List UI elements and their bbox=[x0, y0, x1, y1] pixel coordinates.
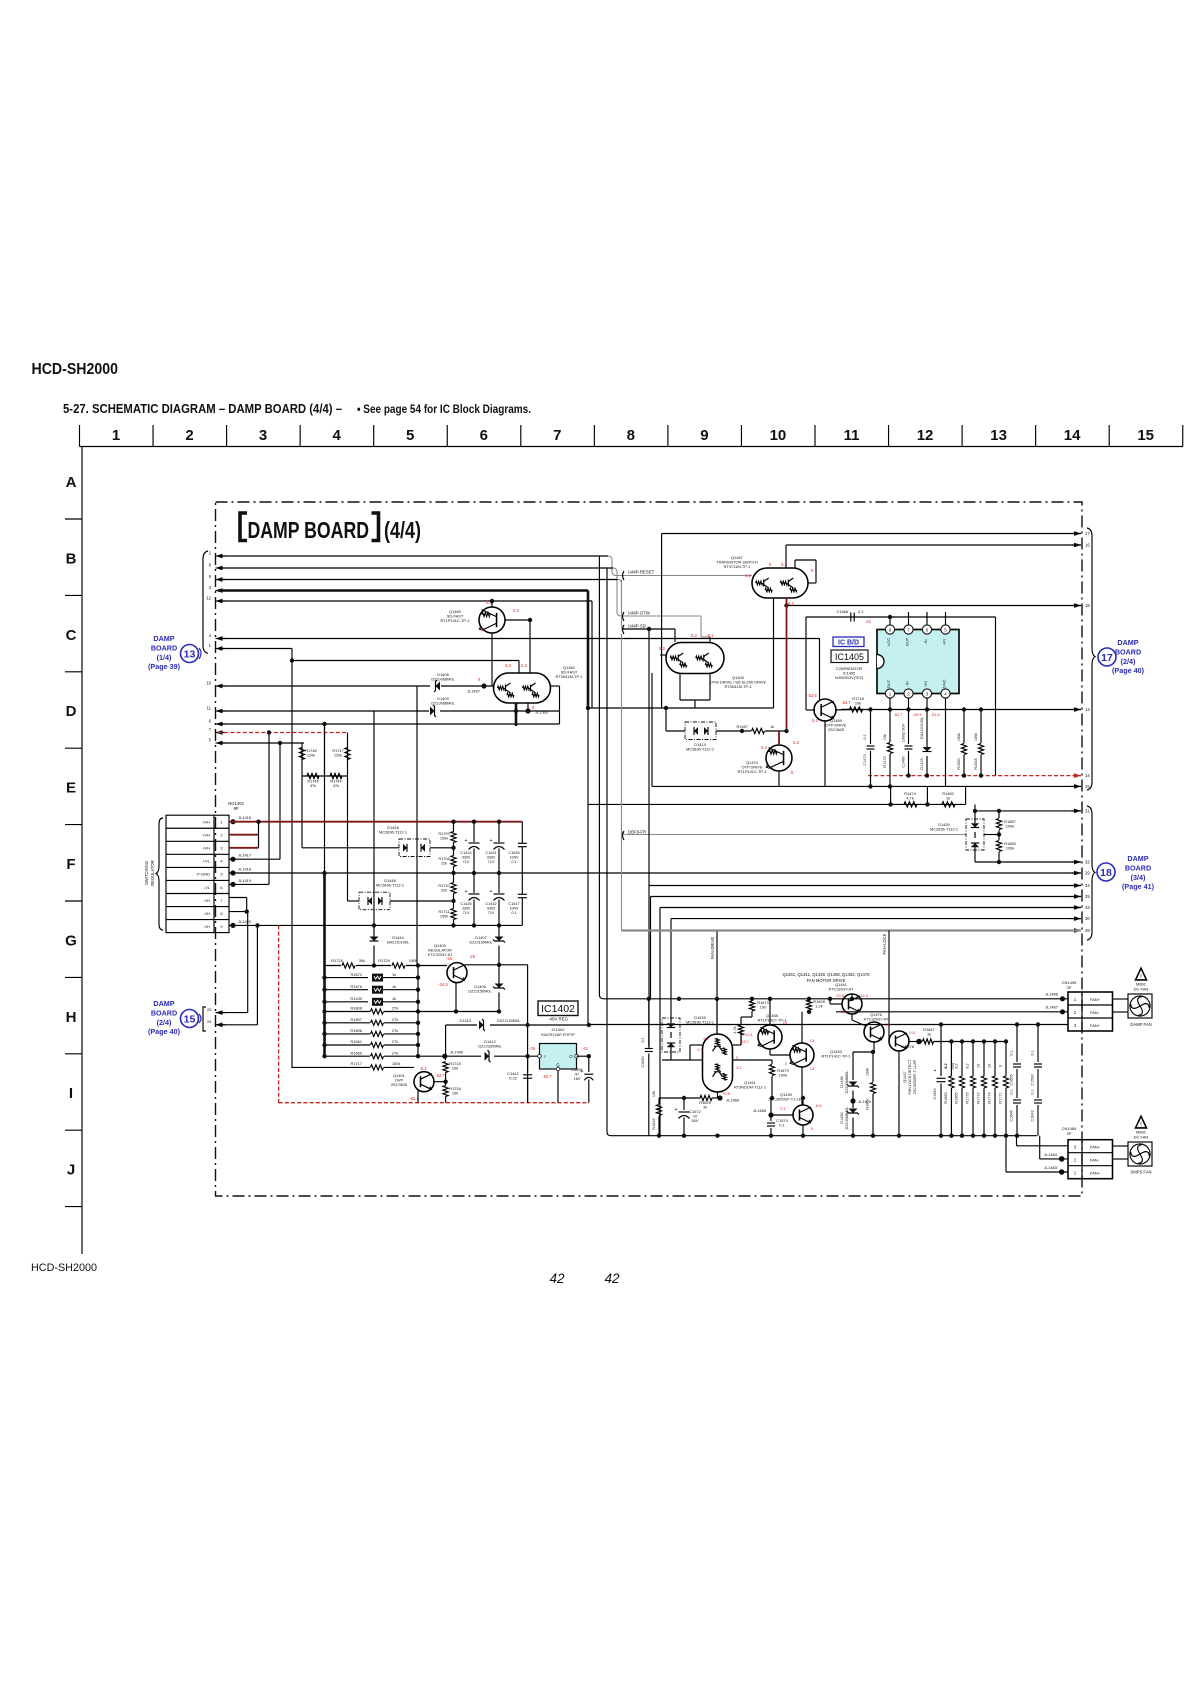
svg-text:HCD-SH2000: HCD-SH2000 bbox=[32, 361, 119, 378]
svg-text:R1457: R1457 bbox=[737, 724, 748, 729]
IC1402 KIA7912AF-RTF/P block bbox=[538, 1027, 579, 1071]
wire pin1 jog down bbox=[291, 649, 293, 661]
svg-text:-52.7: -52.7 bbox=[841, 700, 851, 705]
svg-text:Q1447: Q1447 bbox=[903, 1071, 907, 1082]
resistor R1672 1k bbox=[322, 972, 420, 982]
svg-text:R1745: R1745 bbox=[307, 780, 318, 784]
svg-text:5.2: 5.2 bbox=[812, 718, 818, 723]
svg-text:10k: 10k bbox=[452, 1091, 458, 1096]
wire to pin31 arrow bbox=[975, 810, 1081, 812]
svg-text:13.5: 13.5 bbox=[836, 993, 845, 998]
wire to pin16 arrow bbox=[786, 544, 1081, 546]
connector 15 pin 24 arrow bbox=[207, 1019, 225, 1027]
vertical x652 from Q1405 area bbox=[651, 673, 653, 786]
svg-text:-41: -41 bbox=[582, 1046, 589, 1051]
svg-text:12: 12 bbox=[917, 427, 934, 444]
svg-text:C1606: C1606 bbox=[1010, 1110, 1014, 1121]
svg-text:B: B bbox=[66, 550, 77, 567]
capacitor C1594 4.7 50V bbox=[933, 1022, 955, 1135]
svg-text:OUT: OUT bbox=[886, 679, 891, 688]
svg-text:150k: 150k bbox=[392, 1061, 400, 1066]
connector 15 bracket bbox=[203, 1007, 206, 1031]
svg-text:3.4: 3.4 bbox=[505, 663, 511, 668]
svg-text:D1413: D1413 bbox=[460, 1018, 471, 1023]
vertical x649 fan area bbox=[648, 629, 650, 1048]
svg-text:7: 7 bbox=[553, 427, 561, 444]
transistor Q1401 OVP 2SC3625 bbox=[391, 1072, 434, 1092]
junction JL1470 bbox=[850, 1098, 871, 1104]
resistor R1716 10k bbox=[443, 1082, 461, 1103]
junction JL1416 bbox=[230, 815, 251, 824]
svg-text:13: 13 bbox=[810, 1038, 815, 1043]
svg-text:R1548: R1548 bbox=[974, 758, 978, 769]
svg-text:FAN+: FAN+ bbox=[1090, 1023, 1101, 1028]
connector NO1402 9P body bbox=[166, 815, 229, 932]
resistor R1676 1k bbox=[322, 984, 420, 994]
junction JL1484 bbox=[1044, 1152, 1065, 1162]
svg-text:3.1: 3.1 bbox=[736, 1065, 742, 1070]
svg-text:OUT: OUT bbox=[905, 637, 910, 646]
connector 17 pin 17 arrow bbox=[1071, 531, 1090, 536]
svg-text:42: 42 bbox=[604, 1271, 620, 1286]
resistor R1772 10 bbox=[977, 1039, 987, 1135]
wire y708 row bbox=[588, 707, 695, 709]
svg-text:2SC3052EF-T1-LEF: 2SC3052EF-T1-LEF bbox=[913, 1059, 917, 1094]
connector 13 pin 5 arrow bbox=[209, 738, 226, 746]
svg-text:FAN-DRIVE: FAN-DRIVE bbox=[710, 937, 715, 960]
svg-text:(4/4): (4/4) bbox=[384, 517, 421, 543]
svg-text:RT3NDDM-T111-1: RT3NDDM-T111-1 bbox=[734, 1085, 766, 1090]
resistor R1480 1k bbox=[942, 791, 955, 807]
wire JL1468 vertical bbox=[770, 1098, 772, 1115]
svg-text:RT3N11M-TP-1: RT3N11M-TP-1 bbox=[724, 684, 751, 689]
wire pin12 vertical bbox=[591, 601, 593, 708]
svg-text:13.1: 13.1 bbox=[745, 1032, 754, 1037]
wire pin2 to AMP-RESET bbox=[218, 556, 752, 576]
connector 18 pin 29 arrow bbox=[1071, 871, 1090, 876]
connector 17 pin 15 arrow bbox=[1071, 784, 1090, 789]
svg-text:-IN: -IN bbox=[905, 681, 910, 686]
resistor R1709 150k bbox=[438, 832, 456, 843]
svg-text:MC2836-T112-1: MC2836-T112-1 bbox=[686, 1020, 714, 1025]
svg-text:+: + bbox=[464, 838, 467, 844]
wire IC1405 pin1 down bbox=[889, 698, 891, 709]
wire Q1447 emitter down bbox=[898, 1051, 900, 1136]
ladder right bus x418 bbox=[417, 966, 419, 1057]
vertical x975 D1430 bottom bbox=[974, 850, 976, 862]
wire Q1476 emitter to D1436 bbox=[853, 1051, 874, 1053]
wire JL1487 row bbox=[836, 1011, 1068, 1013]
wire D1413 row bbox=[446, 1024, 477, 1026]
wire IC1405 pin5 up bbox=[945, 612, 947, 625]
wire +VL pin4 bbox=[229, 858, 280, 860]
svg-text:5.2: 5.2 bbox=[793, 740, 799, 745]
connector CN1484 3P bbox=[1062, 1126, 1113, 1179]
connector 13 pin 9 arrow bbox=[209, 574, 226, 582]
resistor R1745 47k bbox=[307, 773, 319, 788]
capacitor C1605 0.1 bbox=[1010, 1025, 1022, 1099]
svg-text:3300: 3300 bbox=[462, 855, 470, 859]
svg-text:FAN-: FAN- bbox=[1090, 1158, 1100, 1163]
svg-text:5.2: 5.2 bbox=[788, 601, 794, 606]
wire divider row y776 bbox=[302, 775, 348, 777]
wire CN1484 pin1 feed JL1483 bbox=[1005, 1136, 1007, 1172]
svg-text:47k: 47k bbox=[310, 784, 316, 788]
svg-text:32: 32 bbox=[1085, 860, 1090, 865]
board title DAMP BOARD (4/4) bbox=[240, 513, 247, 541]
wire pin10 to D1408 bbox=[218, 685, 430, 687]
svg-text:3P: 3P bbox=[1067, 985, 1072, 990]
wire Q1441 emitter to Q1476 bbox=[851, 1014, 853, 1020]
resistor R1474 4.7k bbox=[904, 791, 917, 807]
vertical x527 to IC1402 area bbox=[527, 965, 529, 1103]
svg-text:1k: 1k bbox=[392, 996, 396, 1001]
wire pin8 to AMP-OTW bbox=[218, 568, 701, 616]
wire CN1484 to fan bbox=[1113, 1145, 1129, 1147]
vertical x995 to red dashed 14 bbox=[995, 617, 997, 776]
svg-text:27k: 27k bbox=[392, 1006, 398, 1011]
svg-text:100V: 100V bbox=[510, 906, 519, 910]
svg-text:FAN+: FAN+ bbox=[1090, 1145, 1101, 1150]
vertical x661 pin17 drop bbox=[661, 534, 663, 709]
svg-text:10k: 10k bbox=[452, 1066, 458, 1071]
resistor R1660 27k bbox=[322, 1050, 420, 1058]
wire R1748 column bbox=[301, 743, 303, 776]
svg-text:(Page 40): (Page 40) bbox=[148, 1027, 181, 1036]
svg-text:1k: 1k bbox=[927, 1032, 931, 1037]
connector 18 pin 32 arrow bbox=[1071, 860, 1090, 865]
svg-text:+: + bbox=[489, 889, 492, 895]
resistor R1628 1.2k bbox=[806, 999, 824, 1014]
svg-text:34: 34 bbox=[1085, 883, 1090, 888]
zener D1436 DZ2J068M0L bbox=[840, 1052, 859, 1098]
svg-text:13: 13 bbox=[841, 1009, 846, 1014]
circled 13 bbox=[181, 645, 202, 663]
junction JL1420 bbox=[230, 919, 251, 928]
svg-text:-IN: -IN bbox=[923, 639, 928, 644]
junction JL1419 bbox=[230, 878, 251, 887]
connector 18 pin 30 arrow bbox=[1071, 916, 1090, 921]
svg-text:R1708: R1708 bbox=[438, 857, 449, 861]
svg-text:JL1486: JL1486 bbox=[1045, 992, 1059, 997]
svg-text:(1/4): (1/4) bbox=[157, 653, 172, 662]
svg-text:-VL: -VL bbox=[204, 885, 211, 890]
svg-text:0.1: 0.1 bbox=[697, 1047, 703, 1052]
svg-text:+: + bbox=[464, 889, 467, 895]
wire Q1451 collector top bbox=[716, 999, 718, 1034]
wire IC1405 pin7 up bbox=[908, 612, 910, 625]
svg-text:-VH: -VH bbox=[203, 911, 210, 916]
capacitor C1431 3300 71V bbox=[485, 820, 504, 876]
svg-text:13: 13 bbox=[184, 649, 196, 661]
wire IC1405 pin4 down bbox=[945, 698, 947, 786]
resistor R1625 1k bbox=[659, 1095, 718, 1109]
svg-text:JL1468: JL1468 bbox=[753, 1108, 767, 1113]
svg-text:29: 29 bbox=[1085, 871, 1090, 876]
capacitor C1473 0.1 bbox=[863, 707, 875, 788]
junction JL1486 bbox=[1045, 992, 1065, 1002]
svg-text:16V: 16V bbox=[574, 1076, 581, 1081]
svg-text:3P: 3P bbox=[1067, 1131, 1072, 1136]
svg-text:0.1: 0.1 bbox=[511, 860, 516, 864]
svg-text:DBF8-FR: DBF8-FR bbox=[628, 830, 646, 835]
transistor Q1447 FAN LOCK DETECT 2SC3052EF-T1-LEF bbox=[889, 1031, 917, 1095]
wire Q1441 collector top bbox=[851, 994, 853, 999]
svg-text:SMPS FAN: SMPS FAN bbox=[1130, 1170, 1151, 1175]
wire R1474 R1480 row bbox=[891, 803, 966, 805]
svg-text:SWITCHING: SWITCHING bbox=[144, 861, 149, 885]
wire Q1460 emitter down to JL1437 row bbox=[491, 633, 493, 686]
svg-text:10k: 10k bbox=[855, 701, 861, 706]
svg-text:C1617: C1617 bbox=[508, 902, 519, 906]
svg-text:-26: -26 bbox=[529, 1046, 536, 1051]
transistor Q1470 OTP DRIVE RT1P141C-TP-1 bbox=[738, 745, 792, 774]
wire +VH2 dark red stub bbox=[229, 834, 259, 836]
svg-text:R1728: R1728 bbox=[331, 958, 342, 963]
diode D1444 DA2J10100L bbox=[370, 923, 411, 968]
wire Q1458 collector top bbox=[769, 999, 771, 1025]
wire to pin32 arrow bbox=[975, 861, 1081, 863]
resistor R1715 10k bbox=[443, 1056, 461, 1084]
wire Q1405 left stub bbox=[660, 654, 666, 656]
resistor R1717 150k bbox=[291, 1061, 414, 1070]
transistor Q1460 SD-FAST RT1P141C-TP-1 bbox=[441, 607, 505, 633]
svg-text:1: 1 bbox=[112, 427, 120, 444]
svg-text:BOARD: BOARD bbox=[151, 643, 177, 652]
connector 13 pin 2 arrow bbox=[209, 551, 226, 559]
resistor R1457 1k bbox=[737, 724, 775, 734]
svg-text:C1626: C1626 bbox=[508, 851, 519, 855]
svg-text:2SC3052EF-T1-LEF: 2SC3052EF-T1-LEF bbox=[768, 1097, 804, 1102]
svg-text:RT1P141C-TP-1: RT1P141C-TP-1 bbox=[822, 1054, 851, 1059]
svg-text:0.1: 0.1 bbox=[780, 1106, 786, 1111]
svg-text:30: 30 bbox=[1085, 916, 1090, 921]
vertical bus x417 bbox=[416, 686, 418, 966]
wire Q1403 base row R1728 R1729 bbox=[325, 965, 342, 967]
vertical x975 D1430 top bbox=[974, 804, 976, 819]
svg-text:RT1P141C-TP-1: RT1P141C-TP-1 bbox=[441, 618, 470, 623]
dual transistor Q1467 TRANSISTOR SWITCH RT3T11M-TP-1 bbox=[716, 555, 808, 598]
wire CN1484 pin3 feed bbox=[1016, 1136, 1018, 1146]
vertical x806 to Q1469 base bbox=[805, 617, 807, 710]
svg-text:5.2: 5.2 bbox=[521, 663, 527, 668]
wire +VH3 dark red stub bbox=[229, 847, 259, 849]
svg-text:JL1418: JL1418 bbox=[238, 866, 252, 871]
svg-text:2.9: 2.9 bbox=[885, 1022, 891, 1027]
diode pair D1435 MC2836-T112-1 bbox=[662, 1015, 714, 1052]
svg-text:RT3T11M-TP-1: RT3T11M-TP-1 bbox=[724, 564, 751, 569]
resistor R1711 150k bbox=[439, 909, 457, 920]
svg-text:BOARD: BOARD bbox=[1125, 863, 1151, 872]
wire D1414 left stub bbox=[666, 730, 685, 732]
svg-text:GND: GND bbox=[942, 679, 947, 688]
svg-text:150k: 150k bbox=[409, 958, 417, 963]
junction JL1483 bbox=[1044, 1165, 1065, 1175]
svg-text:D1436: D1436 bbox=[840, 1076, 844, 1087]
junction JL1487 bbox=[1045, 1005, 1065, 1015]
wire Q1470 bottom to 15 line bbox=[778, 771, 780, 786]
svg-text:DAMP: DAMP bbox=[1117, 638, 1138, 647]
svg-text:C1473: C1473 bbox=[863, 754, 867, 765]
connector 13 pin 3 arrow bbox=[209, 585, 226, 593]
svg-text:120k: 120k bbox=[334, 753, 342, 757]
red dashed wire to pin14 arrow bbox=[868, 775, 1081, 777]
svg-text:C1431: C1431 bbox=[485, 851, 496, 855]
resistor R1747 120k bbox=[332, 748, 350, 760]
svg-text:71V: 71V bbox=[488, 860, 495, 864]
label FAN MOTOR DRIVE bbox=[782, 972, 870, 983]
svg-text:100k: 100k bbox=[974, 733, 978, 741]
svg-text:I: I bbox=[544, 1054, 545, 1059]
svg-text:11: 11 bbox=[207, 706, 212, 711]
wire pin12 bbox=[218, 600, 592, 602]
capacitor C1606 0.1 bbox=[1010, 1089, 1022, 1135]
wire Q1439 emitter down bbox=[802, 1125, 804, 1136]
vertical x607 long bbox=[607, 568, 1037, 1136]
svg-text:(Page 40): (Page 40) bbox=[1112, 666, 1145, 675]
svg-text:+VH: +VH bbox=[202, 833, 210, 838]
wire Q1451 emitter bottom bbox=[717, 1092, 719, 1098]
wire comparator out row to pin13 arrow bbox=[841, 709, 1081, 711]
wire pin11 to JL1441 and D1409 bbox=[218, 710, 429, 712]
svg-text:11: 11 bbox=[844, 427, 860, 444]
resistor R1667 100k bbox=[866, 1050, 876, 1136]
capacitor C1572 10 50V bbox=[674, 1096, 700, 1136]
svg-text:DZ2J068M0L: DZ2J068M0L bbox=[845, 1107, 849, 1130]
svg-text:FAN+: FAN+ bbox=[1090, 1171, 1101, 1176]
wire pin10 D1408 to Q1462 bbox=[441, 685, 494, 687]
resistor R1673 100 bbox=[749, 999, 768, 1017]
svg-text:JL1419: JL1419 bbox=[238, 878, 252, 883]
junction JL1437 bbox=[467, 683, 487, 693]
svg-text:(Page 41): (Page 41) bbox=[1122, 882, 1155, 891]
svg-text:0.1: 0.1 bbox=[511, 911, 516, 915]
svg-text:R1709: R1709 bbox=[438, 832, 449, 836]
junction JL1417 bbox=[230, 853, 251, 862]
wire to pin18 arrow bbox=[787, 605, 1082, 607]
svg-text:(2/4): (2/4) bbox=[1121, 657, 1136, 666]
zener D1409 DZ2J068M0L bbox=[430, 696, 456, 717]
svg-text:VCC: VCC bbox=[886, 638, 891, 647]
connector 18 pin 28 arrow bbox=[1071, 928, 1090, 933]
svg-text:2SC3625: 2SC3625 bbox=[391, 1082, 407, 1087]
resistor R1687 100k bbox=[996, 809, 1015, 835]
resistor R1775 8.2 bbox=[966, 1039, 976, 1135]
svg-text:C1605: C1605 bbox=[1010, 1074, 1014, 1085]
wire -VH pin8 row bbox=[229, 911, 248, 913]
svg-text:5.2: 5.2 bbox=[781, 562, 787, 567]
svg-text:C1425: C1425 bbox=[460, 902, 471, 906]
svg-text:0.22: 0.22 bbox=[509, 1076, 517, 1081]
svg-text:DAMP FAN: DAMP FAN bbox=[1130, 1022, 1151, 1027]
svg-text:25: 25 bbox=[207, 1007, 212, 1012]
junction JL1418 bbox=[230, 866, 251, 875]
svg-text:FAN LOCK DETECT: FAN LOCK DETECT bbox=[908, 1059, 912, 1095]
svg-text:DZ2J150M0L: DZ2J150M0L bbox=[469, 940, 493, 945]
diode D1413 DZ2J140M0L bbox=[460, 1018, 522, 1031]
connector 13 pin 6 arrow bbox=[209, 719, 226, 727]
svg-text:27k: 27k bbox=[392, 1028, 398, 1033]
vertical FAN-LOCK bbox=[882, 931, 889, 1032]
svg-text:-25: -25 bbox=[446, 956, 453, 961]
connector 18 pin 34 arrow bbox=[1071, 883, 1090, 888]
svg-text:JL1563: JL1563 bbox=[535, 710, 549, 715]
fan M891 DAMP FAN bbox=[1128, 994, 1152, 1027]
wire pin9 to AMP-SD bbox=[218, 580, 666, 630]
svg-text:MC2836-T112-1: MC2836-T112-1 bbox=[379, 830, 407, 835]
svg-text:0.1: 0.1 bbox=[1010, 1089, 1014, 1094]
capacitor C1626 100V 0.1 bbox=[508, 822, 526, 873]
svg-text:4.7k: 4.7k bbox=[733, 1026, 737, 1033]
svg-text:• See page 54 for IC Block Dia: • See page 54 for IC Block Diagrams. bbox=[357, 402, 531, 416]
capacitor C1486 1000p 50V bbox=[902, 710, 913, 778]
wire IC1405 pin6 up bbox=[926, 612, 928, 625]
svg-text:-51.8: -51.8 bbox=[930, 712, 940, 717]
vertical pin7 to JL1419 row bbox=[268, 733, 270, 885]
svg-text:/AMP-SD: /AMP-SD bbox=[628, 624, 646, 629]
vertical x773 Q1467 to D1414 row bbox=[773, 598, 775, 708]
wire -VH pin9 bus bbox=[229, 924, 522, 926]
wire Q1453 collector up bbox=[801, 1012, 803, 1043]
wire pin3 bold vertical bbox=[587, 591, 590, 709]
resistor R1708 22k bbox=[438, 856, 456, 867]
wire pin4 drop to Q1469 bbox=[819, 639, 821, 701]
svg-text:12: 12 bbox=[206, 596, 211, 601]
svg-text:18: 18 bbox=[1100, 867, 1112, 879]
svg-text:-24.3: -24.3 bbox=[438, 982, 448, 987]
bottom bus junction dots bbox=[657, 1134, 661, 1138]
connector 18 pin 25 arrow bbox=[1071, 894, 1090, 899]
svg-text:100V: 100V bbox=[510, 855, 519, 859]
svg-text:/AMP-OTW: /AMP-OTW bbox=[628, 611, 651, 616]
wire AMP-SD extension bbox=[622, 628, 676, 630]
svg-text:R1710: R1710 bbox=[438, 884, 449, 888]
svg-text:22k: 22k bbox=[441, 861, 447, 865]
svg-text:27k: 27k bbox=[392, 1050, 398, 1055]
svg-text:C1424: C1424 bbox=[460, 851, 471, 855]
svg-text:C1466: C1466 bbox=[837, 609, 848, 614]
svg-text:KIA7912AF-RTF/P: KIA7912AF-RTF/P bbox=[541, 1032, 575, 1037]
wire to pin25b arrow bbox=[651, 896, 1082, 898]
board border dash-dot frame bbox=[216, 502, 1083, 1196]
circled 15 bbox=[181, 1010, 202, 1028]
svg-text:8: 8 bbox=[627, 427, 635, 444]
resistor R1430 1k bbox=[322, 996, 420, 1006]
vertical x671 to D1435 bbox=[670, 919, 672, 1018]
svg-text:100: 100 bbox=[760, 1005, 767, 1010]
warning triangle M891 lower bbox=[1134, 1116, 1149, 1139]
resistor R1663 8.2 bbox=[944, 1039, 954, 1135]
vertical pin7-pin8 tie bbox=[246, 898, 248, 912]
connector 17 brace bbox=[1087, 528, 1095, 790]
svg-text:-41: -41 bbox=[865, 619, 872, 624]
connector 18 pin 33 arrow bbox=[1071, 905, 1090, 910]
connector 13 pin 12 arrow bbox=[206, 596, 225, 604]
IC1405 boxed label bbox=[831, 650, 868, 663]
wire IC1405 pin2 down bbox=[908, 698, 910, 709]
junction JL1441 vertical bbox=[373, 711, 375, 925]
transistor Q1439 2SC3052EF-T1-LEF bbox=[768, 1092, 813, 1125]
transistor Q1458 RT1P141C-TP-1 bbox=[757, 1013, 786, 1049]
svg-text:(3/4): (3/4) bbox=[1131, 873, 1146, 882]
capacitor C1466 0.1 bbox=[837, 609, 864, 622]
wire Q1405 bottoms bbox=[679, 673, 681, 700]
svg-text:RT3N11M-TP-1: RT3N11M-TP-1 bbox=[555, 674, 582, 679]
wire Q1403 collector row bbox=[465, 964, 528, 966]
wire JL1468 to Q1439 base bbox=[771, 1114, 793, 1116]
svg-text:100k: 100k bbox=[866, 1068, 870, 1076]
svg-text:3: 3 bbox=[259, 427, 267, 444]
